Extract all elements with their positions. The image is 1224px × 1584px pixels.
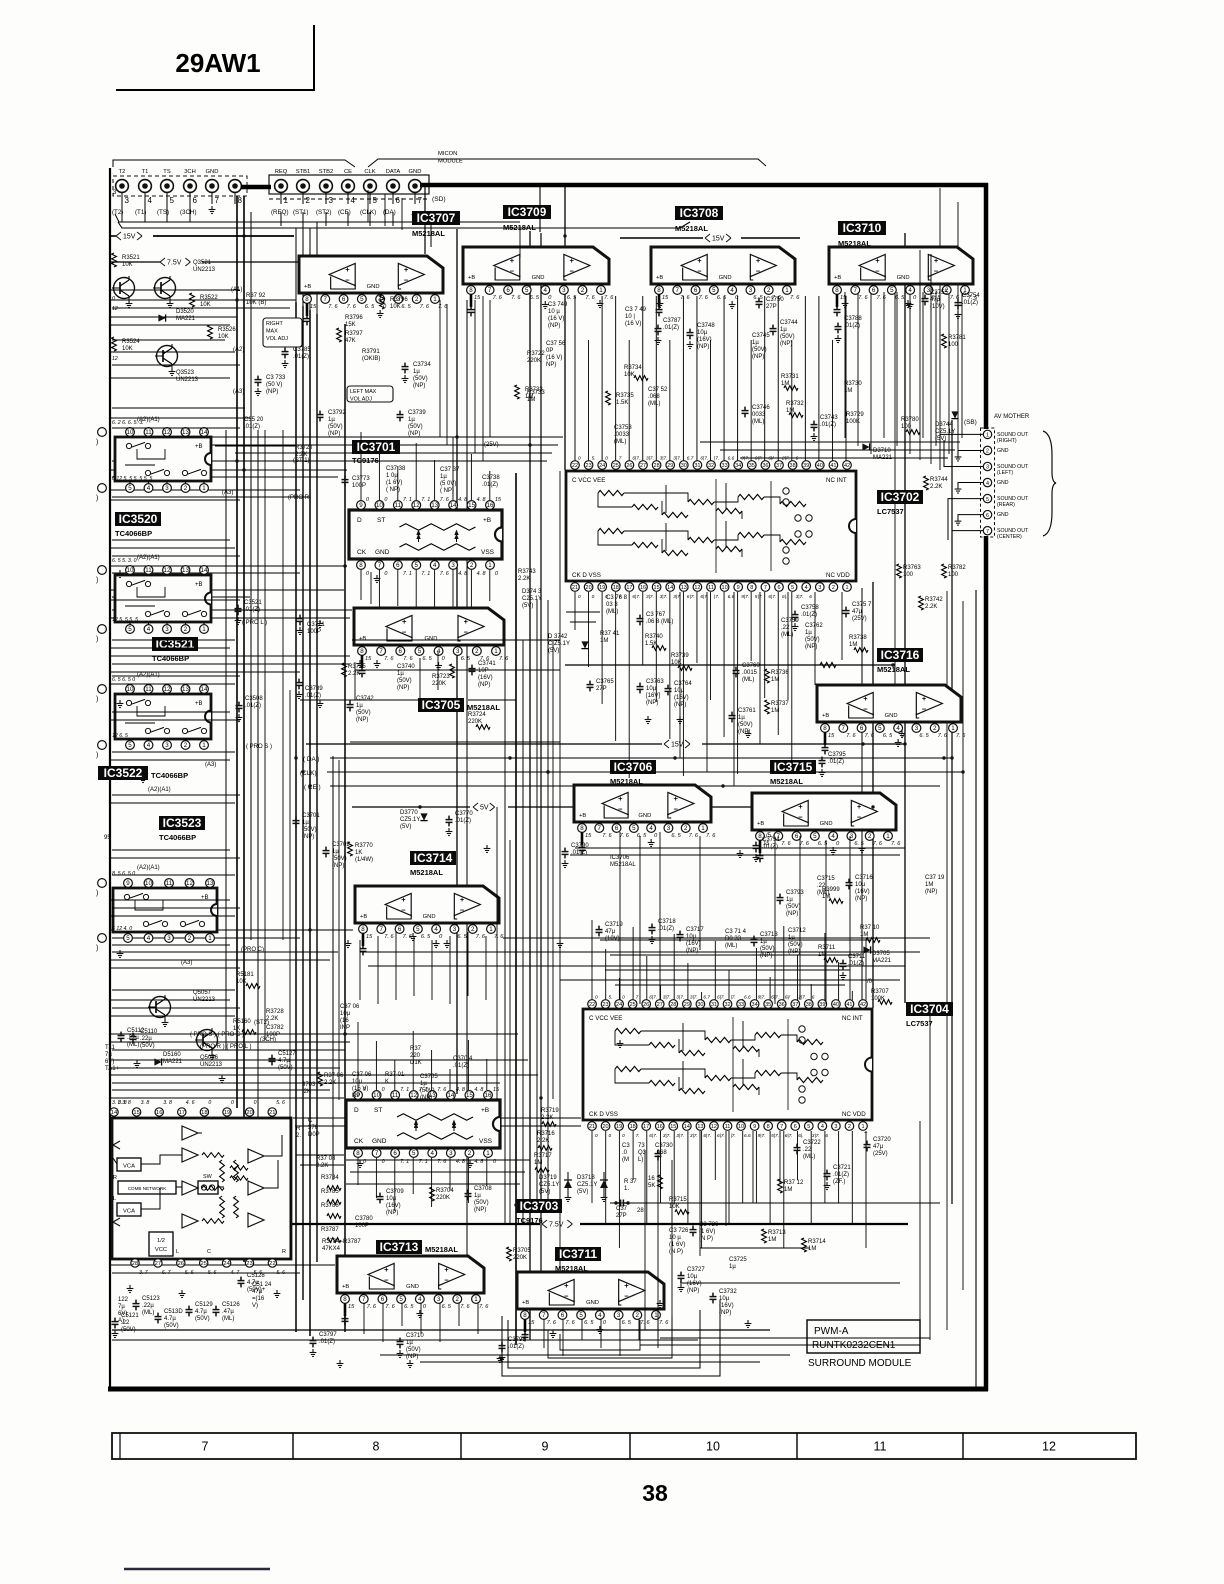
svg-text:GND: GND [719, 275, 732, 281]
svg-text:27: 27 [640, 463, 646, 469]
svg-text:R37 41: R37 41 [600, 631, 620, 637]
wire [560, 979, 900, 981]
svg-text:R3742: R3742 [925, 597, 943, 603]
wire [316, 314, 318, 1262]
svg-text:(ML): (ML) [142, 1310, 154, 1316]
svg-text:R3733: R3733 [527, 390, 545, 396]
svg-text:47K: 47K [345, 338, 356, 344]
svg-text:26: 26 [643, 1002, 649, 1008]
svg-text:(NP): (NP) [780, 341, 792, 347]
svg-text:11: 11 [145, 567, 152, 574]
wire [112, 339, 225, 341]
svg-text:C3780: C3780 [355, 1216, 373, 1222]
svg-text:+B: +B [579, 813, 586, 819]
svg-text:15: 15 [466, 1092, 473, 1099]
svg-text:2.: 2. [296, 1133, 301, 1139]
wire [112, 539, 230, 541]
svg-text:10 µ: 10 µ [669, 1235, 681, 1241]
svg-text:6. 5: 6. 5 [457, 934, 467, 940]
svg-text:GND: GND [997, 512, 1009, 518]
label box IC3521 [152, 637, 198, 651]
svg-text:220K: 220K [432, 681, 446, 687]
svg-text:C3745: C3745 [752, 333, 770, 339]
svg-text:0: 0 [254, 1100, 257, 1106]
svg-text:10µ: 10µ [386, 1196, 397, 1202]
wire R3738 line [565, 664, 893, 666]
svg-text:R3781: R3781 [948, 335, 966, 341]
svg-text:6: 6 [396, 562, 400, 569]
svg-text:10: 10 [738, 1124, 744, 1130]
svg-text:376: 376 [308, 1125, 319, 1131]
svg-text:10K: 10K [200, 302, 211, 308]
svg-text:(1/4W): (1/4W) [355, 857, 373, 863]
matrix wires [141, 1155, 182, 1164]
svg-text:(16V): (16V) [478, 675, 493, 681]
svg-text:3|7.: 3|7. [660, 594, 668, 600]
label R3522 [190, 293, 195, 307]
bus verticals above IC3704 [591, 920, 593, 1000]
svg-text:CZ5.1Y: CZ5.1Y [577, 1182, 597, 1188]
label C3794 [753, 842, 760, 853]
svg-text:R3784–R3787: R3784–R3787 [322, 1239, 361, 1245]
op-amp IC3711 dual [517, 1272, 664, 1309]
svg-text:IC3710: IC3710 [843, 221, 882, 235]
svg-text:1µ: 1µ [406, 1340, 413, 1346]
svg-text:1: 1 [202, 626, 206, 633]
svg-text:T1: T1 [142, 169, 149, 175]
svg-text:7. 6: 7. 6 [511, 295, 521, 301]
svg-text:MA221: MA221 [176, 316, 196, 322]
label R3737 [765, 700, 770, 714]
svg-text:NC VDD: NC VDD [826, 572, 850, 579]
svg-text:VCC: VCC [155, 1247, 167, 1253]
svg-text:C3750: C3750 [766, 297, 784, 303]
IC IC3701 body [349, 510, 502, 559]
svg-text:R3707: R3707 [871, 989, 889, 995]
svg-text:29: 29 [667, 463, 673, 469]
svg-text:7. 6: 7. 6 [800, 841, 810, 847]
label R5160 [242, 1030, 256, 1035]
label R3780 [906, 430, 920, 435]
bus verticals around IC3703 [357, 1022, 359, 1090]
svg-text:4: 4 [351, 196, 356, 205]
svg-text:INP: INP [340, 1025, 350, 1031]
svg-text:1: 1 [489, 926, 493, 933]
bus verticals below IC3704 [591, 1131, 593, 1203]
svg-text:L: L [176, 1249, 179, 1255]
svg-text:+: + [922, 694, 927, 703]
svg-text:C375 7: C375 7 [852, 602, 872, 608]
svg-text:(A3): (A3) [233, 389, 244, 395]
COMB NETWORK block [118, 1181, 176, 1194]
wire [112, 937, 300, 939]
svg-text:6: 6 [860, 725, 864, 732]
svg-text:GND: GND [885, 713, 898, 719]
svg-text:37: 37 [776, 463, 782, 469]
svg-text:7: 7 [542, 1312, 546, 1319]
svg-text:6|/: 6|/ [768, 456, 774, 462]
label R3742 [919, 596, 924, 610]
svg-text:5: 5 [170, 196, 175, 205]
svg-text:(ML): (ML) [725, 943, 737, 949]
svg-text:20: 20 [246, 1110, 252, 1116]
wire [110, 351, 235, 353]
svg-text:D374 3: D374 3 [522, 589, 542, 595]
svg-text:25: 25 [200, 1261, 206, 1267]
label C3763 [637, 683, 644, 694]
svg-text:M5218AL: M5218AL [412, 229, 445, 238]
svg-text:23: 23 [586, 463, 592, 469]
svg-text:21: 21 [572, 585, 578, 591]
svg-text:6: 6 [777, 585, 780, 591]
svg-text:(16V): (16V) [686, 941, 701, 947]
svg-text:(ZF.): (ZF.) [833, 1179, 845, 1185]
svg-text:7. 6: 7. 6 [420, 304, 430, 310]
svg-text:0033: 0033 [752, 412, 766, 418]
wire [332, 756, 334, 1180]
connector bus wire 1 [115, 214, 520, 222]
wire [112, 663, 350, 665]
scattered ground symbols [317, 620, 324, 628]
svg-text:(16V): (16V) [674, 695, 689, 701]
svg-text:47µ: 47µ [873, 1144, 884, 1150]
wire [779, 1131, 781, 1184]
wire [849, 836, 851, 1000]
connector box group 2 [269, 175, 429, 194]
svg-text:6|.: 6|. [782, 594, 787, 600]
svg-text:1.5K: 1.5K [616, 400, 628, 406]
wire [814, 592, 816, 685]
svg-text:6. 7: 6. 7 [162, 1270, 172, 1276]
svg-text:2: 2 [188, 935, 192, 942]
svg-text:1: 1 [486, 1150, 490, 1157]
svg-text:(NP): (NP) [786, 911, 798, 917]
svg-text:IC3709: IC3709 [508, 205, 547, 219]
label box IC3716 [877, 648, 923, 662]
wire [894, 250, 896, 688]
svg-text:31: 31 [711, 1002, 717, 1008]
wire [515, 473, 517, 1345]
wire [110, 1067, 340, 1069]
label R3796 [380, 295, 385, 309]
svg-text:C3744: C3744 [780, 320, 798, 326]
svg-text:−: − [618, 804, 623, 813]
svg-text:7. 6: 7. 6 [680, 295, 690, 301]
svg-text:8: 8 [580, 825, 584, 832]
svg-text:(SD): (SD) [432, 196, 446, 203]
svg-text:C37 06: C37 06 [340, 1004, 360, 1010]
svg-text:5.: 5. [592, 456, 596, 462]
svg-text:LC7537: LC7537 [877, 507, 904, 516]
svg-text:25: 25 [613, 463, 619, 469]
svg-text:−: − [857, 812, 862, 821]
svg-text:2: 2 [184, 626, 188, 633]
svg-text:(10V): (10V) [605, 936, 620, 942]
svg-text:.01(Z): .01(Z) [482, 482, 498, 488]
svg-text:+: + [875, 256, 880, 265]
svg-text:6|.: 6|. [798, 1133, 803, 1139]
wire [112, 907, 240, 909]
svg-text:9|7.: 9|7. [741, 456, 749, 462]
svg-text:CZ5.1Y: CZ5.1Y [935, 429, 955, 435]
svg-text:5: 5 [415, 562, 419, 569]
wire [295, 302, 297, 1332]
wire [430, 212, 432, 247]
svg-text:(5V): (5V) [539, 1189, 550, 1195]
svg-text:+: + [624, 1281, 629, 1290]
svg-text:12 6. 5: 12 6. 5 [112, 733, 128, 739]
svg-text:(NP): (NP) [760, 953, 772, 959]
svg-text:3. 8: 3. 8 [163, 1100, 172, 1106]
svg-text:−: − [444, 1275, 449, 1284]
svg-text:33: 33 [722, 463, 728, 469]
svg-text:+B: +B [656, 275, 663, 281]
svg-text:7. 6: 7. 6 [479, 1304, 489, 1310]
svg-text:11: 11 [395, 502, 402, 509]
op-amp IC3716 dual [817, 685, 961, 722]
svg-text:6|7.: 6|7. [755, 456, 763, 462]
wire [112, 609, 352, 611]
label C3789 [296, 679, 303, 690]
label C3720 [864, 1141, 871, 1152]
wire [659, 832, 661, 1000]
label C5126 [213, 1306, 220, 1317]
svg-text:C5123: C5123 [142, 1296, 160, 1302]
wire [431, 940, 433, 1000]
svg-text:3: 3 [165, 742, 169, 749]
svg-text:.22: .22 [803, 1147, 812, 1153]
svg-text:27P: 27P [616, 1213, 627, 1219]
wire [919, 1121, 921, 1344]
svg-text:+: + [857, 802, 862, 811]
svg-text:22: 22 [589, 1002, 595, 1008]
wire [437, 652, 439, 690]
svg-text:1M: 1M [808, 1246, 816, 1252]
svg-text:−: − [402, 627, 407, 636]
svg-text:C VCC VEE: C VCC VEE [589, 1015, 622, 1022]
wire [919, 250, 921, 460]
label C3727 [678, 1272, 685, 1283]
svg-text:27: 27 [657, 1002, 663, 1008]
svg-text:42: 42 [860, 1002, 866, 1008]
svg-text:5: 5 [128, 485, 132, 492]
svg-text:−: − [863, 704, 868, 713]
svg-text:R3734: R3734 [624, 365, 642, 371]
wire [930, 254, 932, 464]
svg-text:V): V) [252, 1303, 258, 1309]
label R3735 [606, 391, 611, 405]
svg-text:2: 2 [767, 287, 771, 294]
svg-text:4. 8: 4. 8 [458, 497, 467, 503]
wire [338, 760, 340, 1100]
horizontal feeders above IC3704 [600, 939, 870, 941]
svg-text:7. 6: 7. 6 [494, 934, 504, 940]
svg-text:(50V): (50V) [121, 1327, 136, 1333]
wire [112, 1339, 698, 1341]
svg-text:24: 24 [223, 1261, 230, 1267]
label C3750 [756, 298, 763, 309]
wire [112, 460, 547, 462]
svg-text:R3705: R3705 [513, 1248, 531, 1254]
svg-text:1M: 1M [768, 1237, 776, 1243]
SW block [198, 1181, 218, 1194]
svg-text:1: 1 [284, 196, 289, 205]
svg-text:7. 6: 7. 6 [384, 934, 394, 940]
svg-text:C3761: C3761 [738, 708, 756, 714]
svg-text:(50V): (50V) [328, 424, 343, 430]
svg-text:2: 2 [848, 1124, 851, 1130]
svg-text:15: 15 [670, 1124, 676, 1130]
wire [962, 601, 964, 1290]
svg-text:5: 5 [418, 648, 422, 655]
svg-text:3: 3 [167, 935, 171, 942]
svg-text:GND: GND [997, 448, 1009, 454]
svg-text:4. 6: 4. 6 [186, 1100, 195, 1106]
svg-text:3: 3 [667, 825, 671, 832]
connector bracket left [113, 160, 355, 167]
audio matrix top pins [113, 1116, 115, 1118]
svg-text:0: 0 [592, 594, 595, 600]
svg-text:2: 2 [475, 648, 479, 655]
svg-text:(NP): (NP) [646, 700, 658, 706]
label R3724 [476, 725, 490, 730]
svg-text:L: L [113, 1196, 116, 1202]
svg-text:(NP): (NP) [356, 717, 368, 723]
label R3744 [924, 476, 929, 490]
label box IC3523 [159, 816, 205, 830]
svg-text:10: 10 [376, 502, 383, 509]
wire [112, 1082, 500, 1084]
wire [215, 445, 296, 447]
svg-text:(N P): (N P) [669, 1249, 683, 1255]
label C3792 [317, 411, 324, 422]
svg-text:7. 6: 7. 6 [689, 833, 699, 839]
svg-text:.01(Z): .01(Z) [293, 354, 309, 360]
wire [752, 1131, 754, 1203]
module border top / SD bus [420, 183, 988, 188]
svg-text:1: 1 [886, 833, 890, 840]
svg-text:36: 36 [762, 463, 768, 469]
svg-text:4: 4 [896, 725, 900, 732]
svg-text:−: − [934, 266, 939, 275]
svg-text:100P: 100P [266, 1032, 280, 1038]
svg-text:−: − [624, 1291, 629, 1300]
svg-text:R372T: R372T [295, 445, 313, 451]
wire [825, 840, 827, 1004]
svg-text:|7.: |7. [731, 1133, 736, 1139]
svg-text:|7.: |7. [714, 456, 719, 462]
svg-text:6: 6 [398, 926, 402, 933]
svg-text:TC4066BP: TC4066BP [159, 833, 196, 842]
svg-text:6. 5: 6. 5 [461, 656, 471, 662]
svg-text:5: 5 [878, 725, 882, 732]
svg-text:.22: .22 [781, 625, 790, 631]
svg-text:C37 37: C37 37 [440, 467, 460, 473]
svg-text:220K: 220K [513, 1255, 527, 1261]
svg-text:4. 8: 4. 8 [477, 571, 486, 577]
label C3764 [665, 685, 672, 696]
svg-text:4.7µ: 4.7µ [164, 1316, 176, 1322]
svg-text:2.2K: 2.2K [324, 1080, 336, 1086]
svg-text:(16V): (16V) [386, 1203, 401, 1209]
wire [110, 324, 230, 326]
svg-text:R3740: R3740 [645, 634, 663, 640]
wire [309, 310, 311, 1336]
wire [112, 711, 230, 713]
svg-text:(1 6V): (1 6V) [669, 1242, 685, 1248]
label R3732 [789, 413, 803, 418]
svg-text:3CH: 3CH [184, 169, 196, 175]
label C3739 [397, 411, 404, 422]
svg-text:C3710: C3710 [406, 1333, 424, 1339]
svg-text:(5V): (5V) [548, 648, 559, 654]
svg-text:(50V): (50V) [752, 347, 767, 353]
svg-text:4.7µ: 4.7µ [247, 1280, 259, 1286]
svg-text:GND: GND [409, 169, 422, 175]
svg-text:12: 12 [164, 686, 171, 693]
5V rail [352, 806, 470, 808]
label box IC3711 [555, 1247, 601, 1261]
wire [446, 304, 448, 445]
svg-text:GND: GND [372, 1138, 387, 1145]
svg-text:3: 3 [329, 196, 334, 205]
svg-text:(ML): (ML) [648, 401, 660, 407]
wire [522, 640, 524, 1224]
svg-text:C37 19: C37 19 [925, 875, 945, 881]
svg-text:GND: GND [532, 275, 545, 281]
left edge pin [98, 484, 107, 493]
svg-text:C3722: C3722 [803, 1140, 821, 1146]
wire [300, 699, 420, 701]
label C3795 [819, 757, 826, 768]
svg-text:−: − [460, 905, 465, 914]
svg-text:(16 V): (16 V) [548, 316, 564, 322]
svg-text:6. 5: 6. 5 [818, 841, 828, 847]
svg-text:.01(Z): .01(Z) [508, 1344, 524, 1350]
svg-text:C3732: C3732 [719, 1289, 737, 1295]
svg-text:7. 1: 7. 1 [403, 497, 412, 503]
svg-text:+: + [756, 256, 761, 265]
svg-text:34: 34 [735, 463, 741, 469]
label C5127 [269, 1055, 276, 1066]
svg-text:−: − [401, 905, 406, 914]
svg-text:C3755: C3755 [930, 290, 948, 296]
svg-text:3: 3 [456, 648, 460, 655]
svg-text:4: 4 [908, 287, 912, 294]
svg-text:7. 6: 7. 6 [385, 1304, 395, 1310]
svg-text:R3732: R3732 [786, 401, 804, 407]
svg-text:1: 1 [701, 825, 705, 832]
svg-text:7: 7 [842, 725, 846, 732]
svg-text:7. 6: 7. 6 [367, 1304, 377, 1310]
svg-text:6: 6 [561, 1312, 565, 1319]
label C3797 [310, 1337, 317, 1348]
wire [110, 469, 347, 471]
svg-text:(5 0V): (5 0V) [440, 481, 456, 487]
svg-text:L): L) [638, 1157, 643, 1163]
svg-text:10K: 10K [218, 334, 229, 340]
wire [110, 999, 230, 1001]
svg-text:R3796: R3796 [390, 297, 408, 303]
svg-text:+B: +B [304, 284, 311, 290]
svg-text:(5V): (5V) [400, 824, 411, 830]
wire [496, 807, 498, 1100]
svg-text:GND: GND [897, 275, 910, 281]
svg-text:(A2)(A1): (A2)(A1) [148, 787, 171, 793]
svg-text:C3705: C3705 [420, 1074, 438, 1080]
svg-text:(50V): (50V) [302, 827, 317, 833]
wire [547, 600, 549, 1203]
